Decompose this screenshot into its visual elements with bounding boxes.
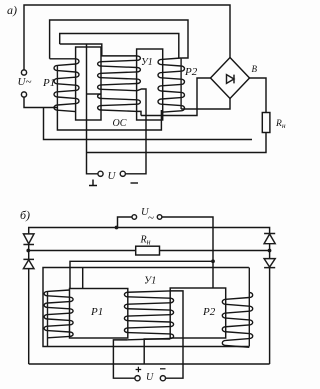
svg-text:Rн: Rн	[140, 235, 151, 247]
diode D4	[264, 259, 275, 268]
wire loop P1 top to P2 top	[50, 20, 188, 59]
diode D3	[264, 234, 275, 244]
svg-text:Р1: Р1	[42, 77, 55, 89]
wire D2 down to bottom bus	[28, 269, 30, 364]
svg-text:В: В	[252, 64, 258, 74]
wire D1 to D2	[28, 245, 30, 260]
svg-text:У1: У1	[144, 276, 156, 287]
resistor Rн (b)	[136, 246, 160, 255]
terminal U control right (a)	[120, 171, 125, 176]
svg-text:ОС: ОС	[113, 118, 127, 129]
winding P1 (a)	[54, 59, 79, 112]
winding Р2 right rail (b)	[248, 268, 250, 347]
winding Р2 (b)	[222, 293, 252, 348]
winding P1 left rail	[56, 65, 58, 107]
winding P2 right rail	[180, 58, 182, 109]
amplifier box У1	[43, 268, 249, 347]
svg-text:U~: U~	[18, 76, 32, 88]
wire rectifier left to ОС bottom	[141, 78, 211, 116]
wire Rn bottom rail	[87, 133, 267, 153]
wire У1 top to control minus	[166, 291, 184, 378]
svg-text:Р2: Р2	[184, 66, 198, 78]
wire box top tap to core 1	[82, 268, 84, 290]
terminal control plus (b)	[135, 376, 140, 381]
wire to winding У1 top	[60, 44, 137, 56]
terminal U~ right (b)	[157, 215, 162, 220]
terminal U~ top (a)	[21, 70, 26, 75]
terminal U~ left (b)	[132, 215, 137, 220]
wire rectifier bottom to P2 bottom	[181, 99, 230, 110]
winding Р1 left rail (b)	[47, 291, 49, 346]
svg-text:Р2: Р2	[202, 306, 216, 318]
svg-text:Р1: Р1	[90, 306, 103, 318]
wire U~ left drop	[118, 217, 133, 228]
svg-text:б): б)	[20, 208, 30, 222]
wire outer lower loop	[44, 108, 253, 140]
wire ОС bottom hook	[137, 111, 141, 115]
wire У1 tap to bottom bus	[144, 339, 170, 364]
terminal U~ bottom (a)	[21, 92, 26, 97]
core 1 (b)	[70, 289, 128, 339]
wire to P1 top	[50, 58, 76, 60]
wire top rail A	[29, 228, 270, 234]
wire rectifier to Rn	[250, 78, 267, 113]
wire У1 bottom to control plus	[113, 340, 134, 378]
wire U~ top to rectifier top vertex	[24, 5, 230, 70]
polarity mark minus (b)	[160, 368, 166, 370]
diode D1	[23, 234, 34, 245]
core 2 (a)	[137, 49, 163, 120]
winding P2 (a)	[158, 58, 185, 112]
wire inner lower loop P1-P2	[57, 108, 161, 131]
junction rail B left	[26, 249, 30, 253]
svg-text:U: U	[146, 372, 154, 383]
winding У1 (b)	[124, 291, 173, 340]
wire D3 to D4	[269, 244, 271, 259]
polarity mark plus (b)	[136, 367, 142, 373]
resistor Rн	[262, 113, 270, 133]
wire rail B	[28, 250, 269, 252]
wire U~ bottom to P1	[24, 97, 57, 107]
diode inside rectifier	[227, 75, 235, 84]
svg-text:У1: У1	[141, 57, 153, 68]
core 1 (a)	[76, 47, 101, 120]
wire rail C to P1 top	[70, 261, 213, 288]
wire bottom bus (b)	[29, 363, 270, 365]
wire control left riser	[87, 44, 98, 174]
svg-text:U: U	[108, 170, 117, 182]
wire U~ right to P2 top	[162, 217, 213, 288]
wire У1 bottom to control terminal	[125, 89, 146, 174]
diode D2	[23, 259, 34, 268]
wire ОС top hook	[87, 93, 102, 95]
junction rail B right	[268, 249, 272, 253]
winding ОС feedback (a)	[98, 94, 141, 111]
winding Р1 (b)	[44, 290, 73, 338]
svg-text:а): а)	[7, 3, 17, 17]
terminal control minus (b)	[160, 376, 165, 381]
polarity mark plus (a)	[89, 180, 97, 186]
junction rail A	[115, 226, 119, 230]
svg-text:Rн: Rн	[275, 119, 286, 130]
core 2 (b)	[170, 288, 226, 338]
wire D4 down to bottom bus	[269, 268, 271, 364]
svg-text:~: ~	[148, 212, 154, 224]
polarity mark minus (a)	[131, 182, 139, 184]
junction rail C	[211, 259, 215, 263]
wire rail to P2 top	[60, 34, 179, 59]
rectifier B diamond	[211, 58, 250, 99]
terminal U control left (a)	[98, 171, 103, 176]
winding У1 control (a)	[98, 56, 141, 91]
